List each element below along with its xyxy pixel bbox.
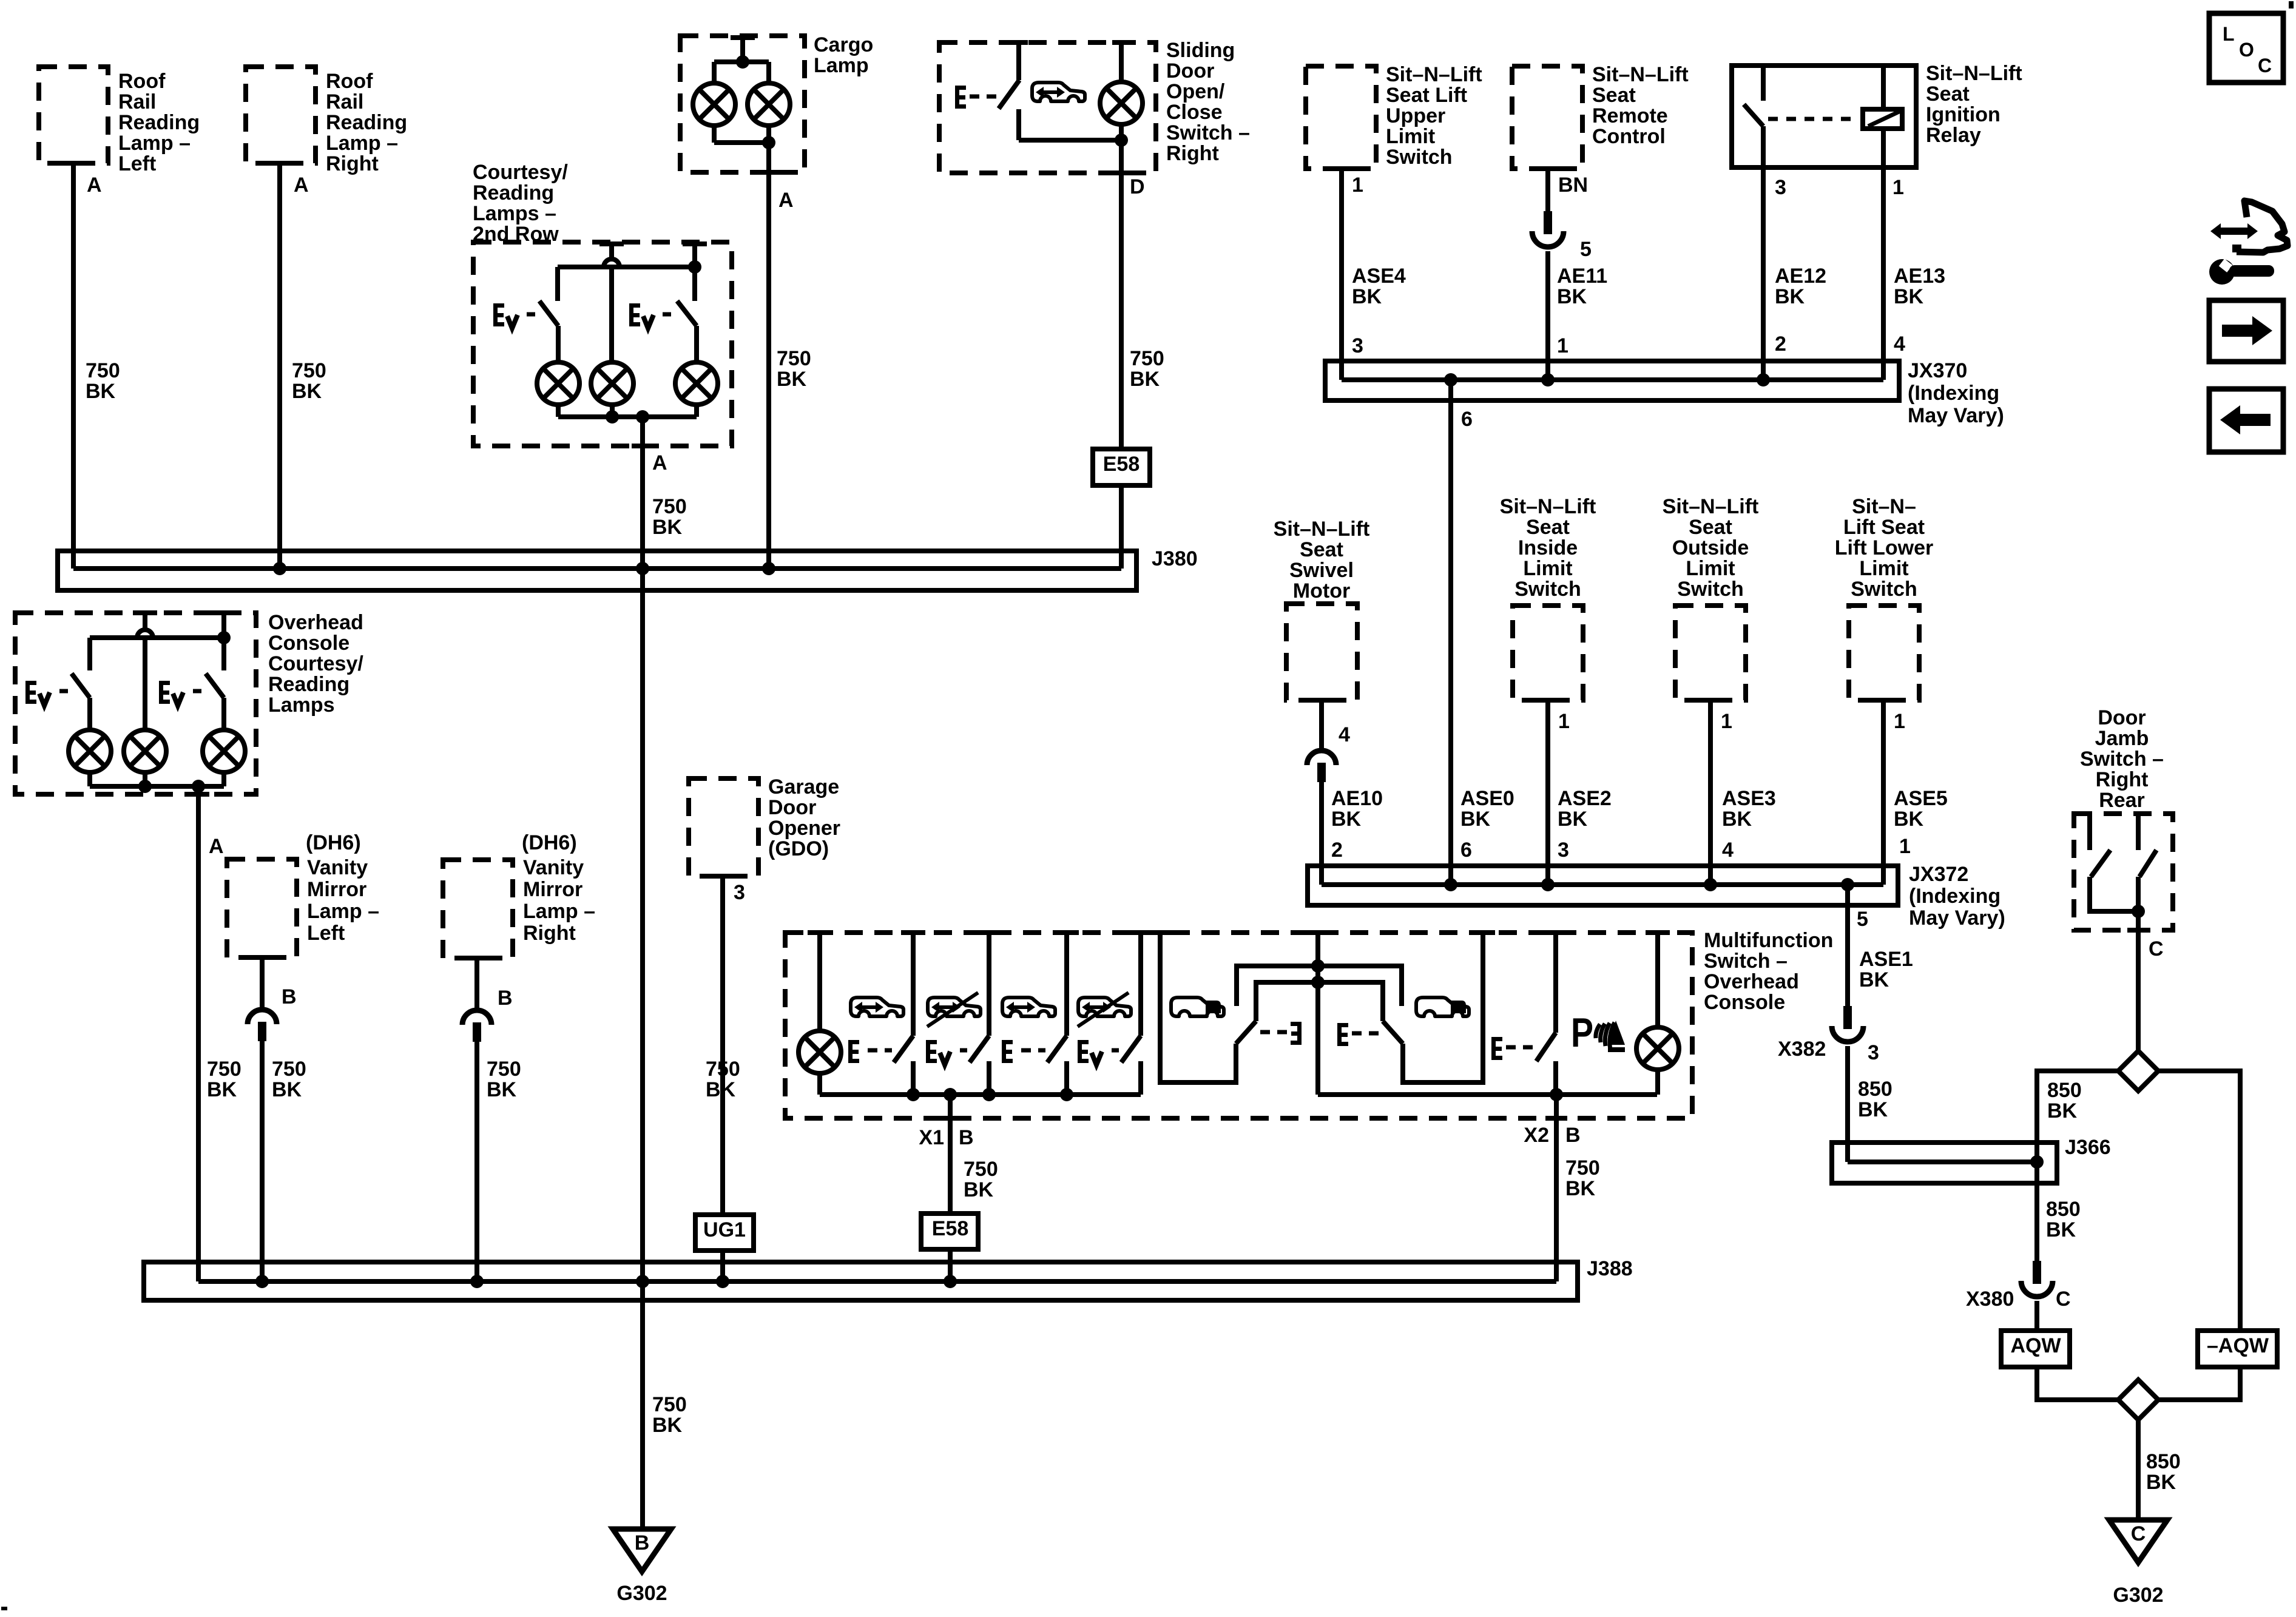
bus bar J366 (1832, 1143, 2057, 1183)
svg-text:B: B (498, 987, 513, 1010)
wire swivel motor lead (1319, 700, 1324, 752)
wire 750 BK roof rail right to J380 (277, 163, 282, 569)
svg-text:(DH6): (DH6) (522, 831, 577, 854)
svg-text:B: B (959, 1126, 974, 1149)
svg-text:BK: BK (1558, 808, 1588, 831)
wire ASE2 BK to JX372 (1545, 700, 1550, 885)
svg-text:Inside: Inside (1518, 536, 1578, 559)
junction cargo bottom (762, 136, 775, 149)
svg-text:Garage: Garage (768, 775, 839, 798)
junction J388 vanity left (255, 1275, 269, 1288)
svg-text:Upper: Upper (1386, 104, 1445, 127)
svg-text:Courtesy/: Courtesy/ (473, 161, 568, 184)
svg-text:BK: BK (2046, 1218, 2076, 1241)
component box Sit-N-Lift Seat Lift Upper Limit Switch (1306, 66, 1376, 169)
svg-text:Right: Right (2096, 768, 2149, 791)
wire internal top rail (558, 265, 695, 269)
wire remote control to connector (1545, 169, 1550, 212)
label E switch5 (1491, 1037, 1502, 1060)
wire E58 to J380 (1119, 485, 1124, 569)
wire 750 BK vanity left to J388 (260, 1040, 265, 1281)
wire vanity left lead (260, 957, 265, 1010)
component box Sit-N-Lift Seat Inside Limit Switch (1513, 606, 1583, 700)
svg-text:Roof: Roof (118, 70, 166, 93)
svg-text:Limit: Limit (1859, 557, 1908, 580)
svg-text:J388: J388 (1587, 1257, 1633, 1280)
component box Sit-N-Lift Seat Lift Lower Limit Switch (1849, 606, 1919, 700)
wire X380 to AQW (2034, 1301, 2039, 1331)
svg-text:Switch –: Switch – (2080, 748, 2164, 771)
wire switch3 lower contact (1064, 1061, 1069, 1095)
svg-text:ASE1: ASE1 (1859, 948, 1913, 971)
svg-text:Right: Right (326, 152, 379, 175)
junction JX372 ASE1 exit (1841, 878, 1854, 891)
switch blade door jamb right (2139, 850, 2156, 877)
svg-text:AE10: AE10 (1331, 787, 1383, 810)
relay switch top contact (1761, 66, 1766, 101)
crossing tick at box edge (632, 444, 653, 448)
svg-text:(DH6): (DH6) (306, 831, 361, 854)
relay coil box (1863, 109, 1902, 129)
svg-text:1: 1 (1558, 710, 1570, 733)
svg-text:3: 3 (1352, 334, 1363, 357)
lamp courtesy 2nd row middle (591, 362, 633, 405)
wire to cargo lamp 1 (712, 62, 717, 83)
switch blade door switch left throw (1236, 1021, 1256, 1044)
icon van open arrow switch1 (851, 998, 903, 1016)
svg-text:Lamp: Lamp (814, 54, 869, 77)
svg-text:Switch: Switch (1386, 146, 1453, 169)
connector inline vanity left (248, 1010, 277, 1024)
switch blade multifunction switch 1 (894, 1036, 913, 1062)
svg-text:ASE2: ASE2 (1558, 787, 1612, 810)
wire switch2 lower contact (987, 1061, 991, 1095)
svg-text:BK: BK (1565, 1177, 1596, 1200)
terminal stub switch3 (1055, 930, 1079, 935)
rail B with end drops (1256, 982, 1383, 1021)
terminal stub right door-van feed (1471, 930, 1495, 935)
svg-text:BK: BK (777, 368, 807, 391)
svg-text:1: 1 (1352, 174, 1363, 197)
terminal stub upper limit switch (1329, 166, 1354, 171)
bus bar J388 (144, 1262, 1578, 1300)
legend box arrow right (2209, 300, 2283, 362)
terminal stub lower limit switch (1871, 698, 1896, 703)
svg-text:Swivel: Swivel (1289, 559, 1354, 582)
svg-text:BK: BK (1331, 808, 1362, 831)
svg-text:750: 750 (652, 1393, 687, 1416)
component box Door Jamb Switch - Right Rear (2074, 814, 2173, 930)
splice diamond upper (2118, 1051, 2158, 1091)
svg-text:BK: BK (207, 1078, 237, 1101)
junction rail A center (1311, 959, 1325, 973)
svg-text:Roof: Roof (326, 70, 373, 93)
wire right door-van L feed (1403, 933, 1483, 1082)
svg-text:BK: BK (2047, 1099, 2078, 1122)
actuator dash link (1112, 1048, 1119, 1053)
wire left door-van L feed (1160, 933, 1236, 1082)
wire multifunction lamp1 feed (817, 933, 822, 1030)
actuator dash link (1506, 1045, 1533, 1050)
svg-text:JX372: JX372 (1909, 863, 1968, 886)
svg-text:Door: Door (2098, 706, 2146, 729)
svg-text:Reading: Reading (118, 111, 200, 134)
svg-text:BK: BK (1894, 808, 1924, 831)
svg-text:750: 750 (777, 347, 811, 370)
wire 750 BK X2 exit to J388 (1554, 1095, 1559, 1281)
svg-text:Sit–N–: Sit–N– (1852, 495, 1916, 518)
label Ev overhead switch 1 (25, 681, 36, 704)
component box Vanity Mirror Lamp - Left (227, 859, 297, 957)
svg-text:BK: BK (272, 1078, 302, 1101)
relay actuation dashed link (1768, 117, 1859, 121)
svg-text:May Vary): May Vary) (1908, 404, 2004, 427)
wire switch 2 to lamp (694, 326, 699, 362)
svg-text:BN: BN (1558, 174, 1588, 197)
terminal stub vanity left (250, 955, 274, 960)
actuator dash link switch 2 (663, 312, 675, 317)
svg-text:750: 750 (1130, 347, 1164, 370)
junction JX370 pin 6 exit (1444, 373, 1457, 387)
label E switch (955, 86, 966, 109)
svg-text:ASE3: ASE3 (1722, 787, 1776, 810)
wire internal bottom rail (558, 414, 697, 419)
component box Multifunction Switch - Overhead Console (785, 933, 1692, 1118)
wire 750 BK X1 exit to E58 (948, 1095, 953, 1214)
label Ev switch2 (926, 1040, 937, 1063)
terminal stub overhead middle feed (133, 610, 157, 615)
svg-text:Seat: Seat (1689, 516, 1732, 539)
legend box LOC (2209, 13, 2283, 83)
connector inline AE10 (1307, 751, 1336, 765)
wire switch 1 to lamp (556, 326, 561, 362)
page mark bottom left (1, 1607, 7, 1610)
ground G302 B (613, 1529, 671, 1571)
wire cargo bottom rail (714, 140, 769, 145)
svg-text:Seat: Seat (1926, 83, 1970, 106)
wire sliding switch lower contact (1016, 109, 1021, 140)
svg-text:Seat: Seat (1300, 538, 1343, 561)
connector -AQW (2198, 1331, 2277, 1367)
wire hop - middle lamp feed over internal wire (609, 244, 614, 259)
bus bar JX370 (1325, 361, 1899, 400)
icon van close arrow crossed switch4 (1078, 993, 1131, 1027)
svg-text:2: 2 (1775, 333, 1786, 356)
svg-text:Reading: Reading (473, 181, 554, 204)
terminal stub - courtesy lamps top feed (599, 241, 624, 246)
legend box arrow left (2209, 389, 2283, 452)
svg-text:P: P (1571, 1010, 1593, 1056)
wire diamond to G302 C (2136, 1420, 2141, 1520)
wire ASE0 BK JX370 pin6 down to JX372 (1448, 380, 1453, 885)
wire switch3 top contact (1064, 933, 1069, 1036)
svg-text:Sit–N–Lift: Sit–N–Lift (1386, 63, 1482, 86)
svg-text:Seat: Seat (1526, 516, 1570, 539)
component box Sit-N-Lift Seat Remote Control (1512, 66, 1582, 169)
label reversed-E door switch left (1291, 1022, 1302, 1045)
junction J388 vanity right (470, 1275, 484, 1288)
label Ev switch 1 (493, 303, 504, 326)
svg-text:ASE0: ASE0 (1460, 787, 1514, 810)
junction switch2 rail (982, 1088, 996, 1101)
lamp overhead console left (69, 730, 111, 772)
connector E58 (1093, 449, 1150, 485)
label Ev switch4 (1078, 1040, 1089, 1063)
svg-text:Console: Console (1704, 991, 1785, 1014)
wire 750 BK sliding door to E58 (1119, 124, 1124, 449)
icon van sliding door right (1416, 998, 1469, 1016)
svg-text:C: C (2056, 1288, 2071, 1311)
junction switch1 rail (907, 1088, 920, 1101)
wire door jamb left lower contact (2090, 877, 2138, 911)
junction J380 cargo (762, 562, 775, 575)
svg-text:A: A (652, 451, 667, 474)
wire lamp bottoms to bottom rail (556, 405, 561, 417)
svg-text:Lamps: Lamps (268, 694, 335, 717)
svg-text:Overhead: Overhead (268, 611, 363, 634)
component box Sit-N-Lift Seat Swivel Motor (1286, 604, 1357, 700)
svg-text:X1: X1 (919, 1126, 944, 1149)
terminal stub A - roof rail right (268, 161, 292, 166)
terminal stub switch1 (901, 930, 925, 935)
actuator dash link (59, 689, 72, 694)
wire splice right branch to -AQW (2158, 1071, 2240, 1331)
wire ASE4 BK to JX370 (1339, 169, 1344, 380)
svg-text:J366: J366 (2065, 1136, 2111, 1159)
junction sliding lamp bottom (1115, 133, 1128, 147)
lamp courtesy 2nd row left (537, 362, 579, 405)
svg-text:750: 750 (272, 1058, 306, 1081)
svg-text:X2: X2 (1524, 1124, 1549, 1147)
lamp courtesy 2nd row right (675, 362, 718, 405)
wire switch4 top contact (1138, 933, 1143, 1036)
wire 750 BK GDO to UG1 (720, 876, 725, 1215)
terminal stub sliding switch top (1010, 40, 1028, 45)
svg-text:BK: BK (706, 1078, 736, 1101)
switch blade overhead switch 2 (206, 673, 224, 698)
svg-text:Sliding: Sliding (1166, 39, 1235, 62)
label E switch1 (848, 1040, 859, 1063)
svg-text:Jamb: Jamb (2095, 727, 2149, 750)
svg-text:Mirror: Mirror (307, 878, 366, 901)
wire multifunction left bottom rail (820, 1092, 1141, 1097)
junction overhead top rail right (217, 631, 231, 644)
wire to cargo lamp 2 (766, 62, 771, 83)
svg-text:Vanity: Vanity (307, 856, 368, 879)
svg-text:D: D (1130, 175, 1145, 198)
junction rail B center (1311, 976, 1325, 989)
wire 750 BK overhead console to J388 (196, 786, 201, 1281)
ground G302 C (2109, 1520, 2167, 1562)
svg-text:Relay: Relay (1926, 124, 1981, 147)
svg-text:BK: BK (1722, 808, 1752, 831)
svg-text:750: 750 (1565, 1156, 1600, 1180)
rail A with end drops (1237, 966, 1402, 1006)
wire switch4 lower contact (1138, 1061, 1143, 1095)
svg-text:G302: G302 (616, 1582, 667, 1605)
svg-text:750: 750 (207, 1058, 241, 1081)
component box Roof Rail Reading Lamp - Left (39, 67, 108, 163)
svg-text:BK: BK (1352, 285, 1382, 308)
terminal stub switch 2 top (683, 241, 707, 246)
junction bottom rail middle lamp (606, 410, 619, 424)
svg-text:4: 4 (1894, 333, 1905, 356)
svg-text:X380: X380 (1966, 1288, 2014, 1311)
svg-text:Seat: Seat (1592, 84, 1636, 107)
svg-text:3: 3 (1868, 1041, 1879, 1064)
crossing tick X1 (939, 1116, 961, 1121)
svg-text:750: 750 (86, 359, 120, 382)
svg-text:Limit: Limit (1523, 557, 1572, 580)
component box Sit-N-Lift Seat Outside Limit Switch (1675, 606, 1746, 700)
svg-text:2: 2 (1331, 839, 1343, 862)
wire door jamb right terminal (2136, 814, 2141, 850)
svg-text:Left: Left (118, 152, 156, 175)
wire switch1 lower contact (911, 1061, 916, 1095)
svg-text:ASE5: ASE5 (1894, 787, 1948, 810)
switch blade multifunction switch 4 (1121, 1036, 1141, 1062)
relay switch blade (1744, 104, 1763, 126)
switch blade - courtesy switch 2 (677, 301, 697, 326)
junction switch3 rail (1060, 1088, 1073, 1101)
svg-text:Door: Door (1166, 59, 1214, 83)
actuator dash link (960, 1048, 967, 1053)
wire lamp1 bottom to rail (817, 1073, 822, 1095)
svg-text:A: A (209, 835, 224, 858)
svg-text:750: 750 (292, 359, 326, 382)
svg-text:A: A (294, 174, 309, 197)
lamp overhead console right (203, 730, 245, 772)
svg-text:1: 1 (1721, 710, 1732, 733)
terminal stub left door-van feed (1148, 930, 1172, 935)
svg-text:850: 850 (1858, 1078, 1893, 1101)
icon van close arrow crossed switch2 (927, 993, 981, 1027)
connector X380 (2033, 1261, 2041, 1284)
wire AQW to diamond splice lower (2037, 1367, 2118, 1400)
page mark top right (2289, 1, 2294, 8)
svg-text:BK: BK (652, 516, 683, 539)
svg-text:E58: E58 (932, 1217, 969, 1240)
junction J388 courtesy/G302 (636, 1275, 649, 1288)
svg-text:X382: X382 (1778, 1038, 1826, 1061)
svg-text:1: 1 (1899, 835, 1911, 858)
svg-text:Limit: Limit (1686, 557, 1735, 580)
svg-text:UG1: UG1 (703, 1218, 746, 1241)
svg-text:4: 4 (1722, 839, 1734, 862)
crossing tick sliding exit (1110, 170, 1132, 175)
terminal stub switch5 (1544, 930, 1568, 935)
svg-text:Lamp –: Lamp – (523, 900, 595, 923)
svg-text:Lamp –: Lamp – (326, 132, 398, 155)
terminal stub switch2 (977, 930, 1001, 935)
svg-text:Sit–N–Lift: Sit–N–Lift (1500, 495, 1596, 518)
connector UG1 (695, 1215, 754, 1251)
svg-text:Right: Right (523, 922, 576, 945)
svg-text:Sit–N–Lift: Sit–N–Lift (1274, 518, 1370, 541)
terminal stub cargo feed (731, 35, 755, 40)
svg-text:B: B (635, 1531, 650, 1555)
svg-text:(Indexing: (Indexing (1909, 885, 2001, 908)
terminal stub overhead switch2 feed (212, 610, 236, 615)
svg-text:BK: BK (1775, 285, 1805, 308)
svg-text:A: A (778, 189, 794, 212)
svg-text:Left: Left (307, 922, 345, 945)
connector AQW (2001, 1331, 2070, 1367)
switch blade multifunction switch 5 (1536, 1033, 1556, 1061)
switch blade door switch right throw (1383, 1021, 1403, 1044)
svg-text:BK: BK (1460, 808, 1491, 831)
junction JX372 ASE2 (1541, 878, 1555, 891)
bus bar JX372 (1308, 866, 1898, 905)
svg-text:750: 750 (964, 1158, 998, 1181)
terminal stub outside limit switch (1698, 698, 1723, 703)
component box Overhead Console Courtesy/Reading Lamps (15, 613, 256, 794)
terminal stub lamp feed (808, 930, 832, 935)
svg-text:Door: Door (768, 796, 816, 819)
legend icon hand with wrench (2210, 223, 2258, 239)
svg-text:BK: BK (86, 380, 116, 403)
wire overhead bottom rail (90, 784, 224, 789)
component box Cargo Lamp (680, 36, 805, 172)
svg-text:ASE4: ASE4 (1352, 265, 1406, 288)
svg-text:B: B (1565, 1124, 1581, 1147)
junction X1 exit (944, 1088, 957, 1101)
svg-text:J380: J380 (1152, 547, 1198, 570)
lamp multifunction right (1636, 1027, 1679, 1070)
wire relay pin 3 (1761, 126, 1766, 380)
junction J366 (2030, 1155, 2044, 1169)
terminal stub center feed (1306, 930, 1330, 935)
svg-text:Switch: Switch (1851, 578, 1917, 601)
svg-text:1: 1 (1893, 176, 1904, 199)
svg-text:BK: BK (652, 1414, 683, 1437)
switch blade overhead switch 1 (72, 673, 90, 698)
actuator dash link right (1352, 1031, 1379, 1036)
svg-text:Mirror: Mirror (523, 878, 582, 901)
svg-text:Sit–N–Lift: Sit–N–Lift (1592, 63, 1689, 86)
wire 850 BK X382 to J366 (1845, 1046, 1850, 1162)
wire ASE1 BK JX372 pin5 down (1845, 885, 1850, 1007)
svg-text:G302: G302 (2113, 1584, 2163, 1607)
svg-text:C: C (2258, 55, 2272, 76)
svg-text:Outside: Outside (1672, 536, 1749, 559)
junction - top rail right (688, 260, 701, 274)
svg-text:O: O (2239, 39, 2254, 61)
svg-text:Remote: Remote (1592, 104, 1668, 127)
switch blade - courtesy switch 1 (539, 301, 558, 326)
wire switch 2 top contact (692, 245, 697, 301)
svg-text:BK: BK (1557, 285, 1587, 308)
svg-text:May Vary): May Vary) (1909, 906, 2005, 930)
svg-text:Multifunction: Multifunction (1704, 929, 1833, 952)
svg-text:Overhead: Overhead (1704, 970, 1799, 993)
svg-text:3: 3 (734, 881, 745, 904)
switch blade multifunction switch 2 (970, 1036, 989, 1062)
svg-text:Ignition: Ignition (1926, 103, 2001, 126)
lamp cargo left (693, 83, 735, 126)
crossing tick X2 (1545, 1116, 1567, 1121)
svg-text:Switch: Switch (1514, 578, 1581, 601)
wire cargo top rail (714, 59, 769, 64)
wire lamp2 bottom to rail (1655, 1070, 1660, 1095)
svg-text:Lamp –: Lamp – (118, 132, 191, 155)
crossing tick overhead exit (187, 792, 209, 797)
svg-text:Lamps –: Lamps – (473, 202, 556, 225)
svg-text:AE13: AE13 (1894, 265, 1945, 288)
wire sliding lamp feed (1119, 42, 1124, 82)
crossing tick door jamb exit (2127, 928, 2149, 933)
svg-text:Close: Close (1166, 101, 1223, 124)
